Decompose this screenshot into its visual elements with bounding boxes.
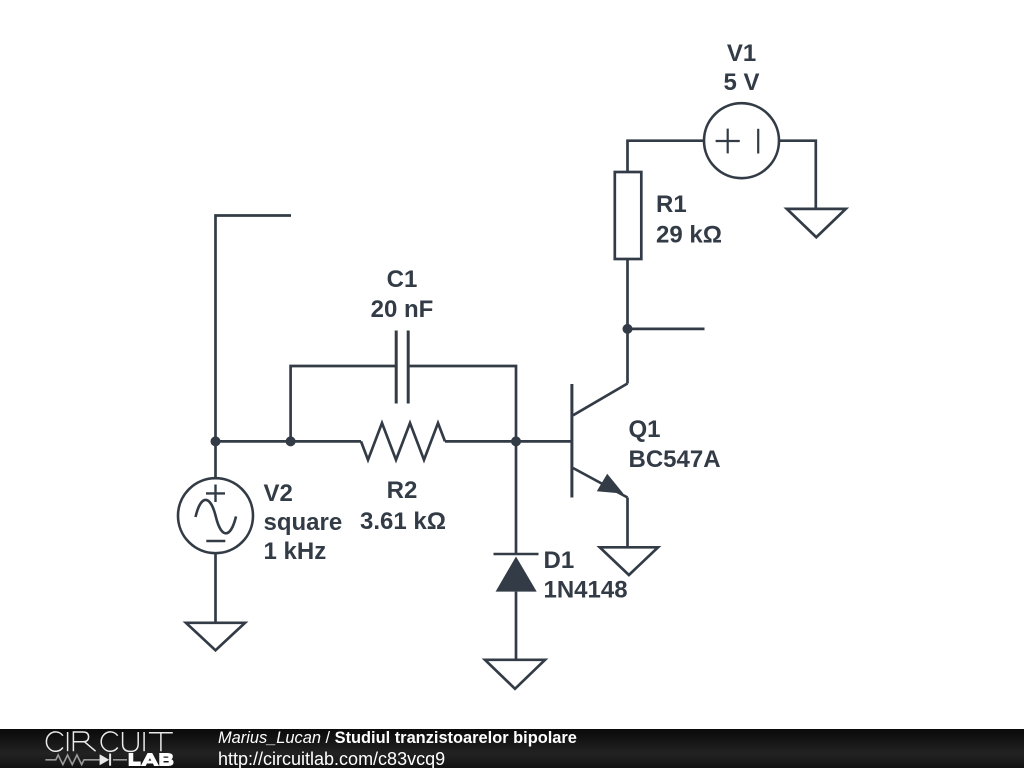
wire: D1 branch from junction down (515, 441, 518, 554)
label R1 (656, 191, 687, 218)
svg-text:20 nF: 20 nF (371, 296, 434, 323)
wire: D1 to ground (515, 592, 518, 659)
value R2 3.61 kOhm (360, 508, 446, 535)
value V2 1 kHz (264, 538, 327, 565)
svg-text:BC547A: BC547A (629, 446, 721, 473)
svg-text:3.61 kΩ: 3.61 kΩ (360, 508, 446, 535)
resistor R1 (615, 172, 642, 259)
voltage source V2 (178, 478, 253, 553)
ground (V1) (787, 209, 846, 237)
label Q1 (629, 416, 661, 443)
svg-text:square: square (264, 509, 343, 536)
node: junction C1 left tap (286, 436, 296, 446)
capacitor C1 (396, 331, 408, 404)
footer title text (218, 729, 577, 748)
wire: collector riser (626, 259, 629, 384)
node: junction D1 tap (511, 436, 521, 446)
svg-text:Q1: Q1 (629, 416, 661, 443)
resistor R2 (361, 423, 445, 460)
label D1 (544, 547, 575, 574)
label V2 (264, 480, 293, 507)
svg-text:1 kHz: 1 kHz (264, 538, 327, 565)
ground (V2) (186, 623, 245, 651)
diode D1 (494, 554, 539, 592)
value D1 1N4148 (544, 577, 628, 604)
value V1 5 V (723, 69, 759, 96)
node: junction V2/main net (211, 436, 221, 446)
wire: R1 top to V1 (628, 141, 704, 172)
label R2 (387, 477, 418, 504)
svg-text:R1: R1 (656, 191, 687, 218)
wire: main net right segment to base (445, 440, 571, 443)
wire: V1 to ground (779, 141, 816, 208)
svg-text:1N4148: 1N4148 (544, 577, 628, 604)
svg-text:R2: R2 (387, 477, 418, 504)
value C1 20 nF (371, 296, 434, 323)
node: collector probe junction (623, 324, 633, 334)
svg-text:29 kΩ: 29 kΩ (656, 222, 722, 249)
wire: V2 top to main net (214, 441, 217, 478)
wire: open probe stub at collector (628, 328, 705, 331)
footer url text (218, 749, 445, 768)
label C1 (387, 266, 418, 293)
value R1 29 kOhm (656, 222, 722, 249)
wire: emitter to ground (626, 498, 629, 547)
CircuitLab logo (0, 729, 210, 768)
wire: C1 left riser (291, 366, 396, 441)
value V2 square (264, 509, 343, 536)
transistor Q1 (572, 384, 628, 498)
ground (Q1 emitter) (600, 547, 658, 575)
value Q1 BC547A (629, 446, 721, 473)
svg-text:D1: D1 (544, 547, 575, 574)
svg-text:5 V: 5 V (723, 69, 759, 96)
wire: open input stub top-left (216, 216, 292, 442)
footer bar (0, 729, 1024, 768)
wire: V2 bottom to ground (214, 553, 217, 622)
wire: C1 right riser (408, 366, 516, 441)
wire: main net left segment (216, 440, 362, 443)
voltage source V1 (704, 103, 779, 178)
svg-text:V1: V1 (727, 40, 756, 67)
ground (D1) (485, 660, 545, 689)
svg-text:V2: V2 (264, 480, 293, 507)
svg-text:C1: C1 (387, 266, 418, 293)
label V1 (727, 40, 756, 67)
